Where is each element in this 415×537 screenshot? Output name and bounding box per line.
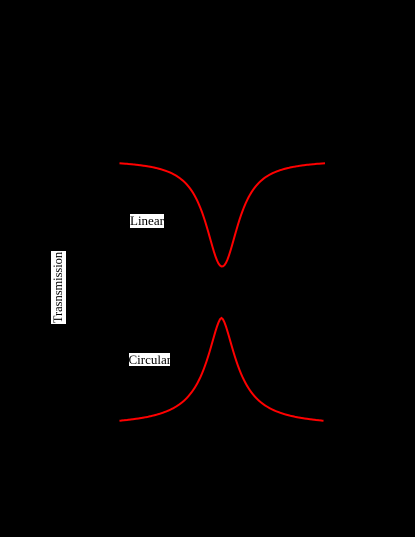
label Linear (130, 214, 164, 228)
curve: Linear transmission dip (red Lorentzian) (120, 163, 326, 266)
label Circular (129, 353, 171, 367)
y-axis label Trasnsmission (51, 251, 66, 324)
curve: Circular transmission peak (red Lorentzian) (120, 318, 324, 421)
